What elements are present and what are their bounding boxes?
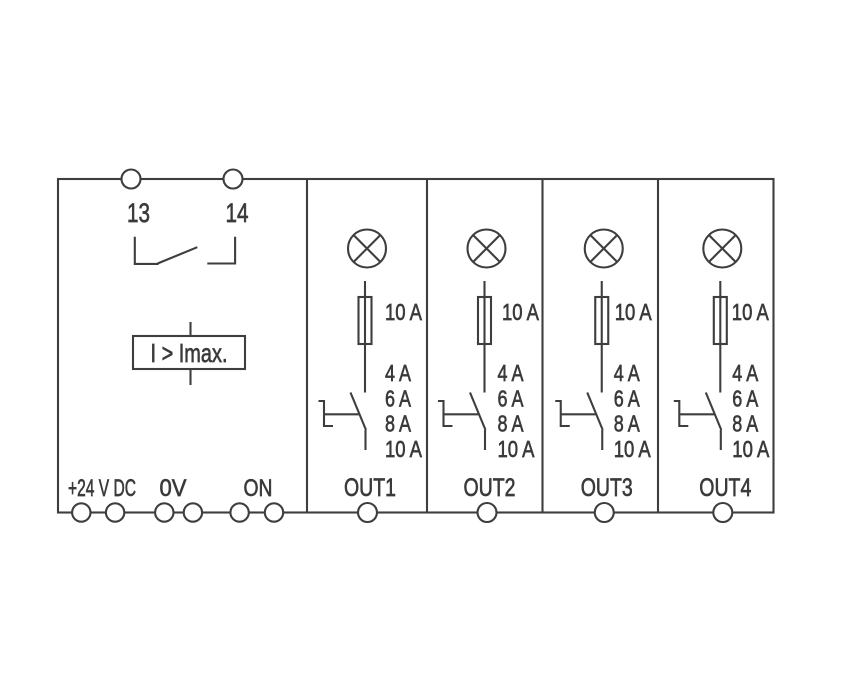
label 0V (160, 475, 188, 502)
trip current option 4 A channel 2 (498, 360, 525, 386)
trip current option 8 A channel 1 (385, 411, 412, 437)
svg-text:OUT3: OUT3 (581, 474, 633, 502)
trip current option 8 A channel 3 (614, 411, 641, 437)
0V terminal a (155, 503, 173, 521)
fuse rating label 10 A channel 3 (615, 299, 653, 325)
label OUT4 (699, 474, 751, 502)
svg-text:10 A: 10 A (614, 436, 652, 462)
partition wall left of OUT4 (657, 179, 659, 513)
wire switch to output channel 3 (601, 430, 603, 450)
wire switch to output channel 4 (720, 430, 722, 450)
trip current option 10 A channel 4 (732, 436, 770, 462)
svg-text:I > Imax.: I > Imax. (151, 338, 228, 368)
label I > Imax. (151, 338, 228, 368)
output terminal OUT4 (713, 503, 732, 522)
wire switch to output channel 1 (364, 430, 366, 450)
svg-text:6 A: 6 A (614, 385, 641, 411)
fuse rating label 10 A channel 4 (732, 299, 770, 325)
svg-text:8 A: 8 A (498, 411, 525, 437)
+24V DC terminal a (72, 503, 90, 521)
svg-text:OUT4: OUT4 (699, 474, 751, 502)
fuse F1 (359, 297, 372, 344)
trip current option 6 A channel 3 (614, 385, 641, 411)
trip current option 10 A channel 1 (385, 436, 423, 462)
indicator lamp channel 4 (703, 230, 741, 268)
trip current option 8 A channel 2 (498, 411, 525, 437)
fuse rating label 10 A channel 2 (502, 299, 540, 325)
trip current option 6 A channel 1 (385, 385, 412, 411)
wire switch to output channel 2 (484, 430, 486, 450)
trip current option 6 A channel 4 (732, 385, 759, 411)
svg-text:10 A: 10 A (732, 299, 770, 325)
svg-text:8 A: 8 A (614, 411, 641, 437)
label OUT3 (581, 474, 633, 502)
indicator lamp channel 3 (585, 230, 623, 268)
svg-text:10 A: 10 A (385, 299, 423, 325)
breaker switch channel 1 (319, 393, 367, 431)
wire lamp to switch channel 4 (719, 281, 721, 393)
trip current option 8 A channel 4 (732, 411, 759, 437)
svg-text:6 A: 6 A (385, 385, 412, 411)
trip current option 4 A channel 3 (614, 360, 641, 386)
svg-text:4 A: 4 A (732, 360, 759, 386)
svg-text:10 A: 10 A (385, 436, 423, 462)
partition wall left of OUT1 (306, 179, 308, 513)
svg-text:14: 14 (226, 198, 249, 228)
indicator lamp channel 2 (468, 230, 506, 268)
ON terminal b (265, 503, 283, 521)
svg-text:8 A: 8 A (385, 411, 412, 437)
terminal 13 (122, 170, 141, 189)
svg-text:0V: 0V (160, 475, 188, 502)
svg-text:OUT1: OUT1 (344, 474, 396, 502)
ON terminal a (230, 503, 248, 521)
terminal 14 (224, 170, 243, 189)
label 13 (127, 198, 150, 228)
label OUT2 (464, 474, 516, 502)
svg-text:10 A: 10 A (502, 299, 540, 325)
svg-text:13: 13 (127, 198, 150, 228)
svg-text:+24 V DC: +24 V DC (68, 475, 136, 502)
breaker switch channel 4 (674, 393, 722, 431)
partition wall left of OUT2 (426, 179, 428, 513)
svg-text:6 A: 6 A (732, 385, 759, 411)
relay contact 13-14 (NO signal contact) (135, 237, 235, 264)
svg-text:8 A: 8 A (732, 411, 759, 437)
wire lamp to switch channel 3 (601, 281, 603, 393)
fuse F3 (595, 297, 608, 344)
output terminal OUT2 (478, 503, 497, 522)
module frame (58, 179, 774, 513)
current sense line (upper) (189, 322, 191, 336)
svg-text:10 A: 10 A (615, 299, 653, 325)
fuse F4 (714, 297, 727, 344)
wire lamp to switch channel 2 (483, 281, 485, 393)
breaker switch channel 3 (555, 393, 603, 431)
label ON (244, 475, 273, 502)
output terminal OUT3 (595, 503, 614, 522)
trip current option 10 A channel 3 (614, 436, 652, 462)
svg-text:4 A: 4 A (498, 360, 525, 386)
output terminal OUT1 (358, 503, 377, 522)
trip current option 4 A channel 4 (732, 360, 759, 386)
svg-text:4 A: 4 A (614, 360, 641, 386)
fuse rating label 10 A channel 1 (385, 299, 423, 325)
+24V DC terminal b (106, 503, 124, 521)
breaker switch channel 2 (438, 393, 486, 431)
trip current option 10 A channel 2 (498, 436, 536, 462)
svg-text:4 A: 4 A (385, 360, 412, 386)
partition wall left of OUT3 (541, 179, 543, 513)
trip current option 4 A channel 1 (385, 360, 412, 386)
fuse F2 (478, 297, 491, 344)
svg-text:OUT2: OUT2 (464, 474, 516, 502)
label OUT1 (344, 474, 396, 502)
svg-text:10 A: 10 A (498, 436, 536, 462)
label +24 V DC (68, 475, 136, 502)
svg-text:ON: ON (244, 475, 273, 502)
0V terminal b (184, 503, 202, 521)
indicator lamp channel 1 (348, 230, 386, 268)
trip current option 6 A channel 2 (498, 385, 525, 411)
svg-text:6 A: 6 A (498, 385, 525, 411)
current sense line (lower) (189, 369, 191, 385)
svg-text:10 A: 10 A (732, 436, 770, 462)
wire lamp to switch channel 1 (364, 281, 366, 393)
label 14 (226, 198, 249, 228)
comparator box I > Imax. (133, 336, 245, 369)
